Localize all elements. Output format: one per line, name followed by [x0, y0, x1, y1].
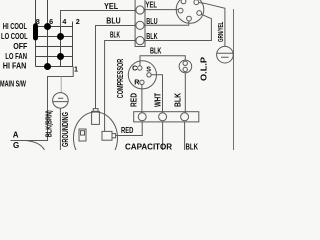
switch contact dots	[33, 23, 64, 70]
wire OLP to strip circle3	[184, 73, 186, 113]
svg-text:RED: RED	[129, 93, 138, 107]
svg-text:RED: RED	[121, 126, 134, 135]
svg-text:HI COOL: HI COOL	[3, 22, 27, 31]
ground symbol right	[217, 46, 234, 63]
svg-text:COMPRESSOR: COMPRESSOR	[116, 59, 125, 99]
svg-text:1: 1	[74, 65, 78, 74]
svg-text:R: R	[134, 78, 140, 87]
wire strip2 to bottom	[162, 122, 164, 150]
svg-text:CAPACITOR: CAPACITOR	[125, 142, 172, 150]
wire grounding branch	[60, 77, 62, 93]
compressor	[128, 61, 156, 89]
svg-text:BLU: BLU	[146, 17, 157, 26]
wire BLU right to fan motor bottom pin	[144, 21, 189, 25]
svg-text:MAIN S/W: MAIN S/W	[0, 80, 26, 89]
svg-text:O.L.P: O.L.P	[199, 56, 208, 81]
svg-text:YEL: YEL	[146, 1, 158, 10]
svg-text:BLK: BLK	[146, 32, 157, 41]
terminal strip bottom	[134, 112, 199, 122]
grounding symbol left	[53, 93, 69, 109]
wire HI FAN to plug BLK(BRN)	[11, 67, 74, 141]
plug arc A/G	[25, 140, 45, 150]
svg-text:LO COOL: LO COOL	[1, 32, 28, 41]
svg-text:BLK: BLK	[110, 31, 120, 40]
wire BLK right to fan motor right pin	[144, 14, 212, 40]
wire BLU switch-side: to capacitor T1	[96, 26, 137, 109]
switch contact HI FAN pin 6	[44, 63, 51, 70]
wire grounding to bottom	[59, 108, 61, 150]
svg-text:GROUNDING: GROUNDING	[61, 112, 70, 147]
svg-text:S: S	[146, 64, 151, 73]
switch contact LO FAN pin 4	[57, 53, 64, 60]
wire BLK switch-side: to capacitor T3	[105, 41, 137, 132]
wire YEL from switch to terminal block	[61, 11, 137, 27]
switch wiper capsule	[33, 23, 38, 40]
svg-text:6: 6	[49, 17, 53, 26]
overload protector O.L.P	[179, 60, 192, 73]
svg-text:2: 2	[76, 17, 80, 26]
svg-text:LO FAN: LO FAN	[5, 52, 27, 61]
svg-text:OFF: OFF	[13, 42, 27, 51]
svg-text:8: 8	[36, 17, 40, 26]
main switch grid MAIN S/W	[36, 22, 74, 67]
capacitor	[74, 112, 118, 164]
svg-text:4: 4	[62, 17, 66, 26]
wire col1 to top	[35, 0, 37, 27]
wire BLK compressor C to OLP	[140, 56, 185, 66]
fan motor	[176, 0, 204, 23]
labels	[0, 22, 28, 89]
svg-text:BLU: BLU	[106, 16, 120, 25]
wire RED strip1 to capacitor T3	[116, 122, 143, 136]
svg-text:BLK: BLK	[150, 47, 161, 56]
wire col2 to top	[47, 0, 49, 27]
wire GRN/YEL motor to ground	[199, 3, 225, 47]
svg-text:YEL: YEL	[104, 2, 118, 11]
terminal block TB	[135, 0, 145, 47]
wire WHT compressor S to strip circle2	[151, 75, 162, 113]
svg-text:C: C	[132, 64, 137, 73]
svg-text:GRN/YEL: GRN/YEL	[216, 21, 225, 42]
capacitor terminal T2	[79, 129, 86, 141]
svg-text:WHT: WHT	[154, 93, 163, 107]
wire RED compressor R to strip circle1	[141, 85, 143, 113]
wire strip3 to bottom BLK	[184, 122, 186, 150]
svg-text:A: A	[13, 131, 19, 140]
svg-text:BLK: BLK	[186, 142, 199, 150]
switch contact LO COOL pin 4	[57, 33, 64, 40]
svg-text:BLK: BLK	[174, 93, 183, 107]
svg-text:BLK(BRN): BLK(BRN)	[45, 110, 54, 137]
svg-text:HI FAN: HI FAN	[3, 62, 27, 71]
switch contact HI COOL pin 6	[44, 23, 51, 30]
capacitor terminal T1	[93, 109, 98, 112]
wire YEL right to fan motor	[144, 9, 179, 11]
svg-text:G: G	[13, 141, 19, 150]
capacitor terminal T3	[112, 134, 116, 138]
